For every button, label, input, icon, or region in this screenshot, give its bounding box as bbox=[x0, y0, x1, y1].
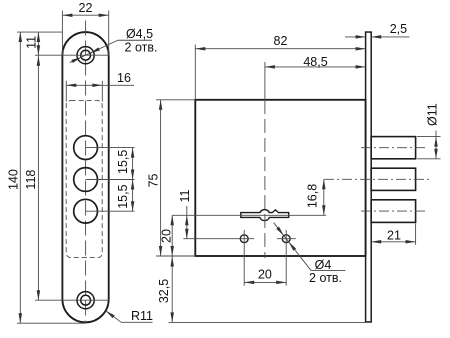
svg-text:82: 82 bbox=[274, 34, 288, 48]
dim 11 body arrow down bbox=[185, 229, 189, 239]
svg-text:2 отв.: 2 отв. bbox=[125, 41, 158, 55]
dim 82 extension line left bbox=[194, 45, 196, 100]
dim 16 extension line left bbox=[65, 81, 67, 102]
svg-text:20: 20 bbox=[258, 268, 272, 282]
dim 20 holes arrow right bbox=[276, 281, 286, 285]
key lever profile bbox=[241, 210, 289, 221]
dim 16 arrow left bbox=[66, 84, 76, 88]
svg-text:20: 20 bbox=[160, 229, 174, 243]
dim 82 arrow right bbox=[356, 47, 366, 51]
dim 16 arrow right bbox=[92, 84, 102, 88]
svg-text:2,5: 2,5 bbox=[390, 22, 407, 36]
bottom hole horizontal centerline bbox=[35, 299, 110, 301]
svg-text:R11: R11 bbox=[131, 309, 153, 323]
dim 20 dimension line bbox=[171, 215, 173, 256]
svg-text:21: 21 bbox=[387, 229, 401, 243]
dim 22 dimension line bbox=[62, 14, 108, 16]
dim 20 arrow up bbox=[170, 215, 174, 225]
svg-text:Ø4: Ø4 bbox=[315, 258, 332, 272]
dim 48,5 arrow right bbox=[356, 65, 366, 69]
leader Ø4,5 arrow lower-left bbox=[71, 57, 81, 63]
svg-text:Ø4,5: Ø4,5 bbox=[126, 27, 153, 41]
leader line Ø4,5 diagonal bbox=[70, 40, 118, 62]
dim 48,5 arrow left bbox=[265, 65, 275, 69]
leader Ø4,5 shelf bbox=[118, 39, 152, 41]
leader Ø4 shelf bbox=[311, 269, 346, 271]
dim 22 extension line right bbox=[108, 11, 110, 56]
bolt pin 2 rectangle bbox=[371, 168, 415, 190]
dim 2,5 arrow pointing right bbox=[356, 35, 366, 39]
dim 16 extension line right bbox=[101, 81, 103, 102]
dim 22 arrow right bbox=[99, 13, 109, 17]
dim 140 arrow down bbox=[19, 313, 23, 323]
screw hole top: Ø4,5 hole bbox=[81, 50, 91, 60]
bolt hole circle 2 (front view) bbox=[74, 168, 98, 192]
dim Ø11 arrow up bbox=[434, 137, 438, 147]
top hole horizontal centerline bbox=[35, 54, 110, 56]
dim 32,5 dimension line bbox=[171, 256, 173, 322]
extension line at plate top bbox=[17, 31, 62, 33]
dim 15,5 dimension line bbox=[132, 148, 134, 212]
dim 11 body arrow up bbox=[185, 215, 189, 225]
body bottom edge extension left bbox=[156, 255, 195, 257]
bolt hole circle 3 (front view) bbox=[74, 199, 98, 223]
bolt hole circle 3 center tick bbox=[86, 210, 135, 212]
dim 21 arrow right bbox=[406, 240, 416, 244]
svg-text:140: 140 bbox=[6, 169, 20, 190]
dim 140 bottom extension line bbox=[17, 322, 86, 324]
bolt hole circle 1 center tick bbox=[86, 147, 135, 149]
dim 16,8 dimension line bbox=[323, 179, 325, 215]
svg-text:15,5: 15,5 bbox=[116, 184, 130, 208]
leader Ø4 arrow upper bbox=[276, 227, 284, 236]
fixing hole right Ø4 bbox=[282, 235, 290, 243]
dim 16,8 arrow up bbox=[322, 179, 326, 189]
svg-text:11: 11 bbox=[178, 189, 192, 202]
bolt hole circle 1 (front view) bbox=[74, 136, 98, 160]
fixing hole right crosshair horizontal bbox=[277, 238, 296, 240]
dim Ø11 arrow down bbox=[434, 149, 438, 159]
bolt pin 2 centerline bbox=[324, 178, 429, 180]
dim 15,5 arrows at circle2 bbox=[131, 170, 135, 180]
dim 22 extension line left bbox=[61, 11, 63, 56]
faceplate vertical centerline bbox=[85, 21, 87, 324]
leader Ø4,5 arrow upper-right bbox=[90, 47, 100, 53]
dim 32,5 arrow down bbox=[170, 312, 174, 322]
bolt pin 1 rectangle bbox=[371, 137, 415, 159]
dim 118 arrow down bbox=[37, 290, 41, 300]
dim 118 arrow up bbox=[37, 56, 41, 66]
svg-text:118: 118 bbox=[24, 170, 38, 190]
dim 75 arrow up bbox=[159, 100, 163, 110]
keyhole vertical centerline bbox=[264, 62, 266, 100]
dim 22 arrow left bbox=[62, 13, 72, 17]
keyhole vertical centerline dashed bbox=[264, 100, 266, 258]
leader R11 shelf bbox=[121, 321, 152, 323]
dim Ø11 extension line top bbox=[417, 136, 441, 138]
dim 20 holes arrow left bbox=[244, 281, 254, 285]
dim 118 dimension line bbox=[37, 55, 39, 300]
svg-text:22: 22 bbox=[79, 1, 93, 15]
dim 20 arrow down bbox=[170, 246, 174, 256]
svg-text:Ø11: Ø11 bbox=[426, 103, 440, 126]
dim 16 dimension line bbox=[66, 84, 134, 86]
bolt pin 1 centerline bbox=[361, 147, 428, 149]
svg-text:15,5: 15,5 bbox=[116, 150, 130, 174]
lever horizontal centerline bbox=[172, 214, 326, 216]
screw hole top: countersink circle bbox=[77, 47, 94, 64]
svg-text:16: 16 bbox=[117, 71, 131, 85]
dim 11 body dimension line bbox=[186, 206, 188, 239]
dim 11 arrow down bbox=[37, 45, 41, 55]
leader R11 line bbox=[106, 311, 122, 323]
dim 11 arrow up bbox=[37, 32, 41, 42]
bolt pin 3 rectangle bbox=[371, 200, 415, 223]
dim 15,5 arrow down at circle3 bbox=[131, 201, 135, 211]
faceplate outline (stadium, R11 ends) bbox=[62, 32, 108, 322]
dim 75 arrow down bbox=[159, 246, 163, 256]
svg-text:75: 75 bbox=[147, 174, 161, 188]
dim 15,5 arrow up at circle1 bbox=[131, 148, 135, 158]
dim 75 extension line top bbox=[156, 99, 195, 101]
dim 21 extension line right bbox=[415, 223, 417, 244]
dim 2,5 arrow pointing left bbox=[371, 35, 381, 39]
dim 11 dimension line bbox=[37, 32, 39, 55]
dim 20 holes dimension line bbox=[244, 281, 286, 283]
svg-text:48,5: 48,5 bbox=[303, 55, 327, 69]
dashed inner pocket rectangle 16 wide bbox=[66, 101, 102, 258]
fixing hole right crosshair vertical bbox=[285, 230, 287, 286]
svg-text:2 отв.: 2 отв. bbox=[309, 271, 342, 285]
dim 140 dimension line bbox=[19, 32, 21, 323]
bottom reference line bbox=[169, 321, 366, 323]
leader R11 arrow bbox=[106, 311, 115, 318]
bolt hole circle 2 center tick bbox=[86, 179, 135, 181]
dim 48,5 dimension line bbox=[265, 66, 366, 68]
dim 140 arrow up bbox=[19, 32, 23, 42]
fixing hole left Ø4 bbox=[240, 235, 248, 243]
leader Ø4 diagonal bbox=[274, 223, 311, 271]
dim Ø11 dimension line bbox=[435, 131, 437, 159]
svg-text:11: 11 bbox=[25, 36, 39, 49]
screw hole bottom: Ø4,5 hole bbox=[81, 295, 91, 305]
lock body rectangle bbox=[195, 100, 365, 256]
dim 32,5 arrow up bbox=[170, 257, 174, 267]
dim 75 dimension line bbox=[160, 100, 162, 256]
fixing hole left crosshair vertical bbox=[243, 230, 245, 286]
dim 16,8 arrow down bbox=[322, 205, 326, 215]
dim 82 arrow left bbox=[195, 47, 205, 51]
screw hole bottom: countersink circle bbox=[77, 292, 94, 309]
svg-text:32,5: 32,5 bbox=[157, 279, 171, 303]
svg-text:16,8: 16,8 bbox=[305, 184, 319, 208]
dim Ø11 extension line bottom bbox=[417, 158, 441, 160]
faceplate side strip 2,5 thick bbox=[366, 32, 372, 322]
dim 2,5 right line (shelf) bbox=[371, 36, 409, 38]
dim 21 arrow left bbox=[371, 240, 381, 244]
dim 2,5 left line bbox=[345, 36, 366, 38]
fixing holes row line bbox=[183, 238, 254, 240]
leader Ø4 arrow lower bbox=[289, 242, 297, 251]
bolt pin 3 centerline bbox=[361, 210, 428, 212]
dim 82 dimension line bbox=[195, 48, 365, 50]
dim 21 dimension line bbox=[371, 241, 415, 243]
